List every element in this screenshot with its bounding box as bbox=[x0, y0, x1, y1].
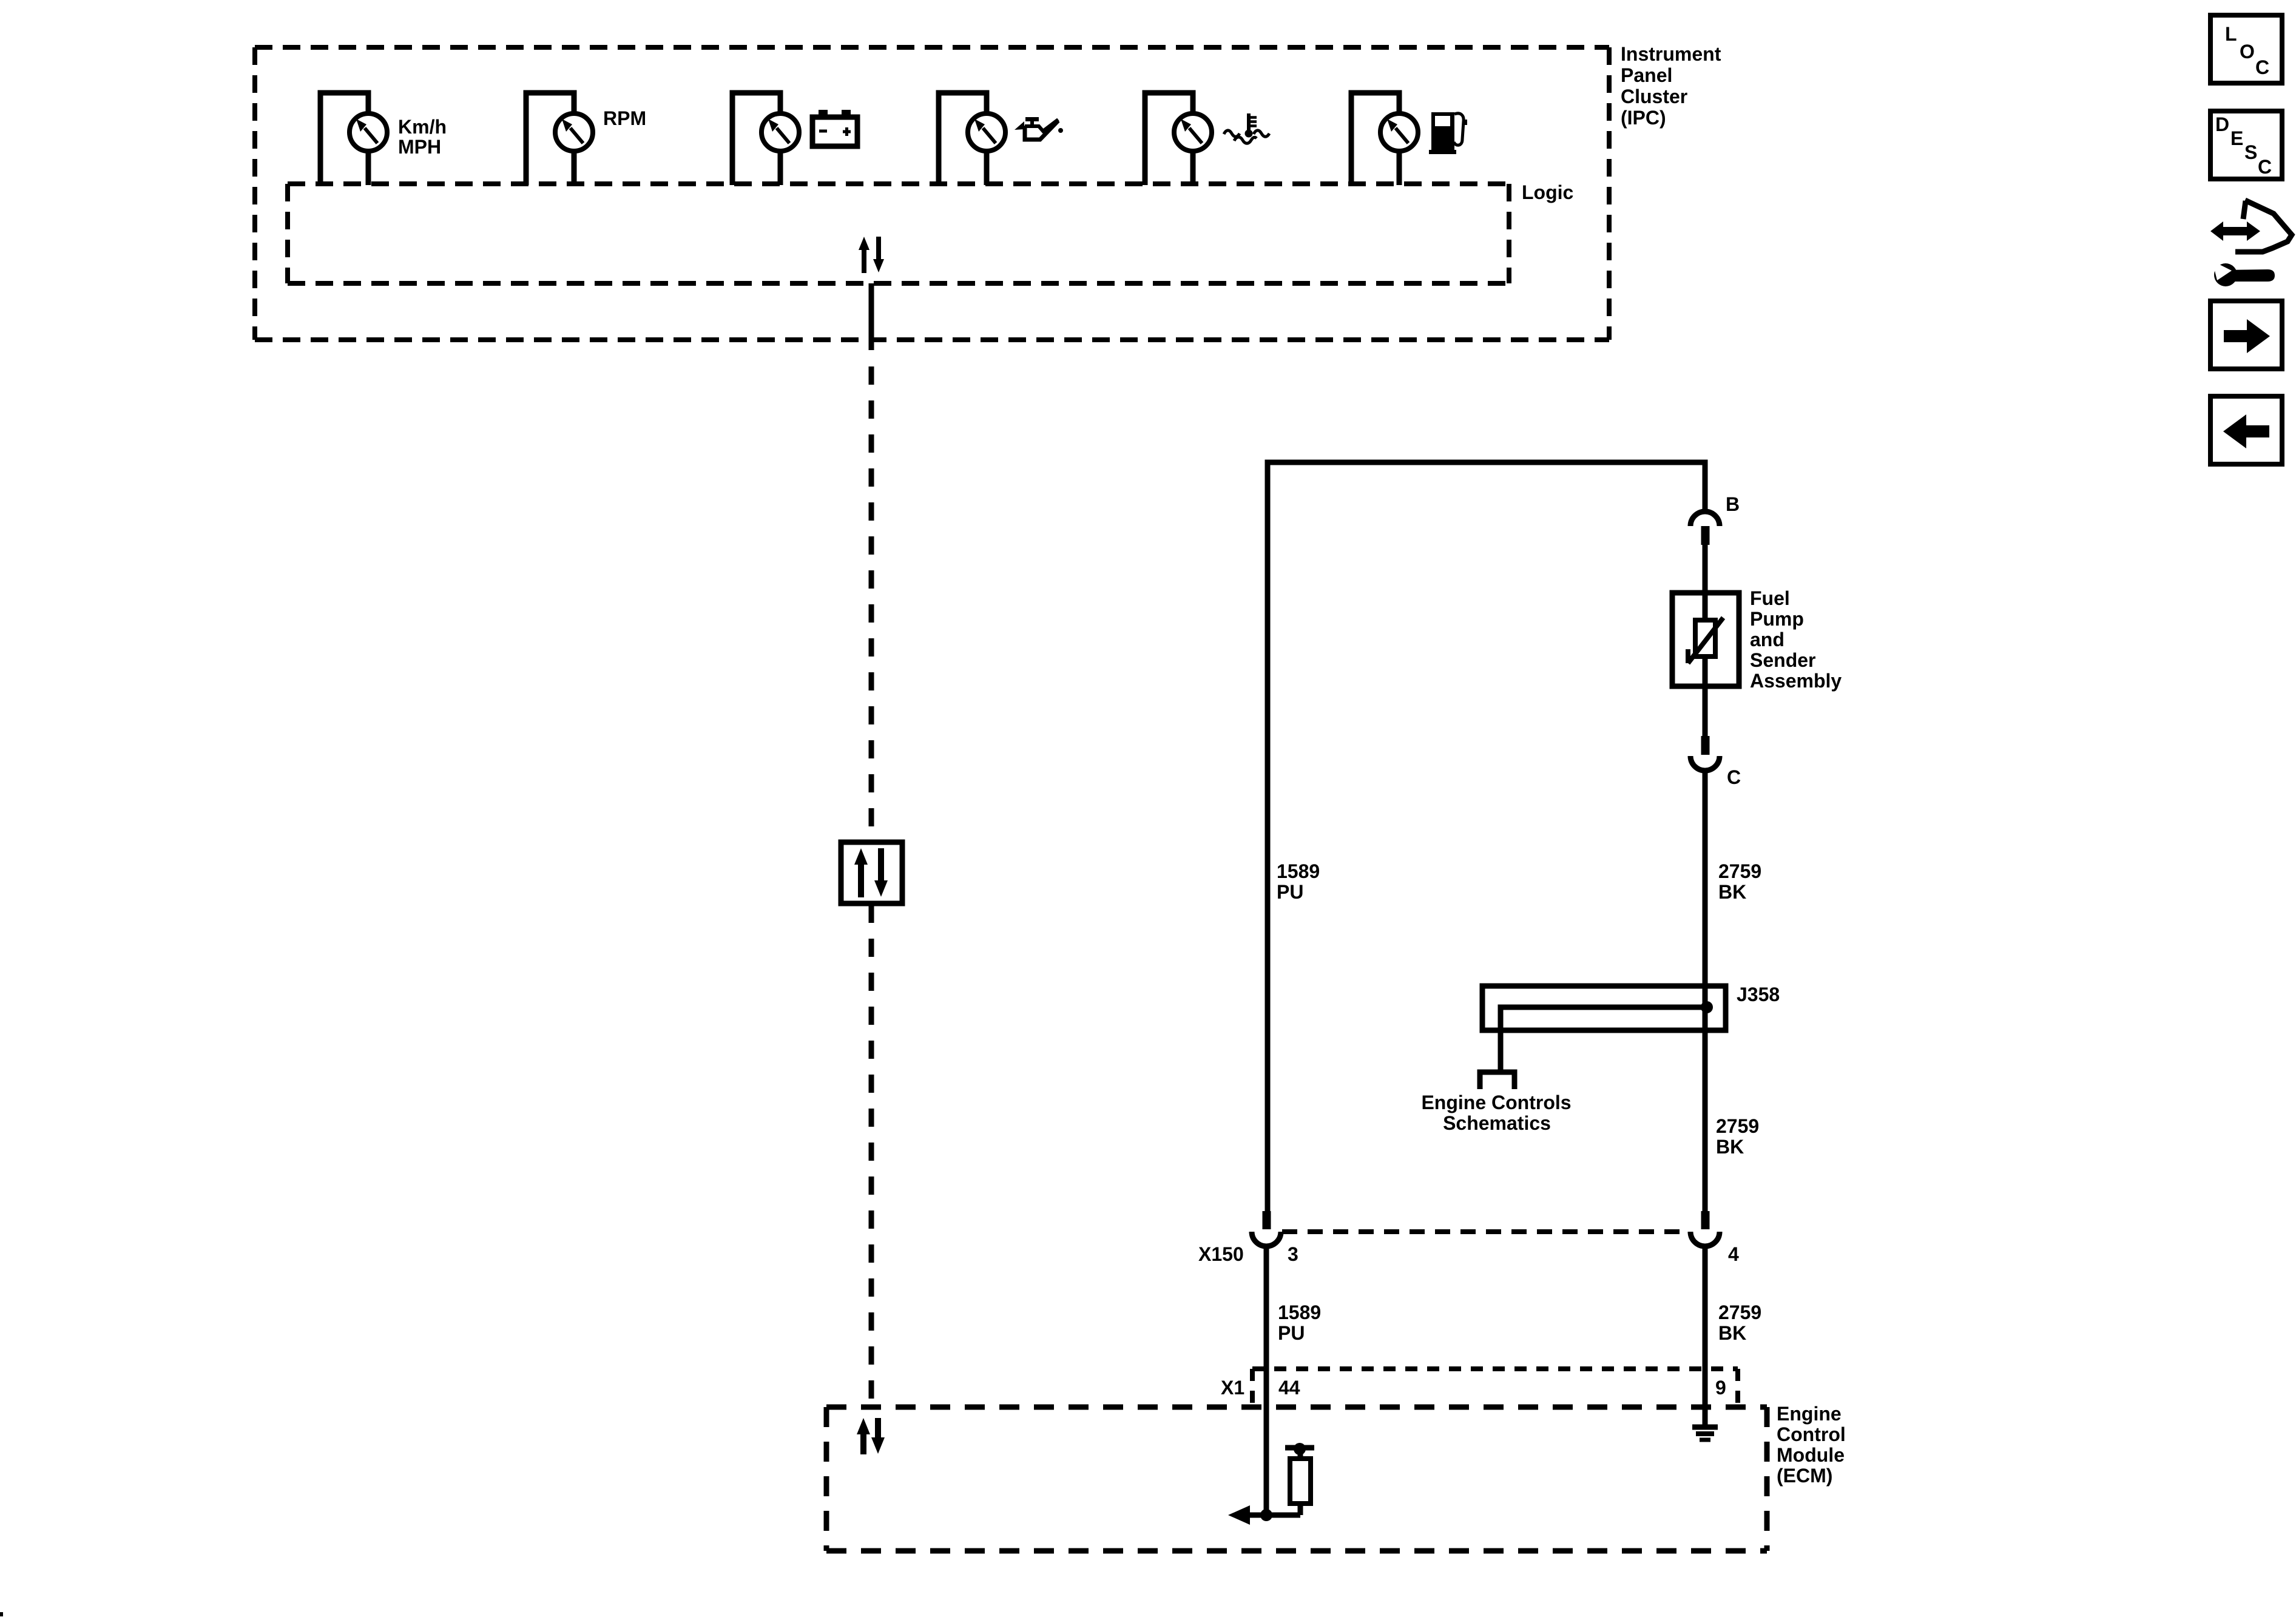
pull-up resistor bbox=[1290, 1459, 1311, 1504]
connector B pin bbox=[1701, 526, 1710, 545]
svg-text:Engine Controls: Engine Controls bbox=[1421, 1092, 1571, 1113]
label 2759 BK upper bbox=[1718, 860, 1761, 903]
svg-text:PU: PU bbox=[1277, 881, 1303, 903]
sender rheostat bbox=[1688, 618, 1723, 663]
svg-text:4: 4 bbox=[1728, 1243, 1739, 1265]
coolant temp gauge bbox=[1145, 93, 1212, 185]
wire X150-4 to ECM ground bbox=[1703, 1246, 1708, 1425]
ground symbol G bbox=[1692, 1427, 1718, 1440]
label 1589 PU lower bbox=[1278, 1301, 1321, 1344]
signal arrow into ECM logic bbox=[1228, 1505, 1300, 1525]
svg-text:Pump: Pump bbox=[1750, 608, 1804, 630]
forward arrow icon box bbox=[2210, 301, 2282, 369]
svg-text:Sender: Sender bbox=[1750, 649, 1815, 671]
fuel pump and sender assembly box bbox=[1672, 593, 1739, 686]
IPC instrument panel cluster dashed box bbox=[255, 47, 1609, 340]
arrows in serial data box bbox=[854, 848, 888, 897]
svg-text:S: S bbox=[2244, 141, 2257, 163]
pull-up resistor wire bbox=[1298, 1504, 1303, 1515]
svg-text:Logic: Logic bbox=[1522, 181, 1573, 203]
svg-text:2759: 2759 bbox=[1718, 860, 1761, 882]
svg-text:2759: 2759 bbox=[1716, 1115, 1759, 1137]
wire through fuel pump box bbox=[1703, 593, 1708, 686]
svg-text:Instrument: Instrument bbox=[1621, 43, 1721, 65]
wire top horizontal ignition feed bbox=[1268, 462, 1705, 1211]
voltage rail dot bbox=[1294, 1443, 1306, 1455]
svg-text:Fuel: Fuel bbox=[1750, 587, 1790, 609]
repair icon wrench bbox=[2212, 261, 2275, 286]
svg-text:Panel: Panel bbox=[1621, 64, 1672, 86]
label 2759 BK middle bbox=[1716, 1115, 1759, 1158]
fuel pump label bbox=[1750, 587, 1842, 692]
svg-text:(IPC): (IPC) bbox=[1621, 107, 1666, 129]
IPC label bbox=[1621, 43, 1721, 129]
svg-text:BK: BK bbox=[1718, 881, 1746, 903]
tachometer gauge bbox=[526, 93, 593, 185]
svg-text:9: 9 bbox=[1715, 1377, 1726, 1399]
svg-text:BK: BK bbox=[1716, 1136, 1744, 1158]
coolant temperature icon bbox=[1224, 113, 1269, 143]
voltage rail T bar bbox=[1285, 1445, 1314, 1451]
connector C pin bbox=[1701, 736, 1710, 755]
dashed serial data wire upper bbox=[869, 366, 874, 842]
speedometer gauge bbox=[320, 93, 387, 185]
svg-text:2759: 2759 bbox=[1718, 1301, 1761, 1323]
svg-text:Schematics: Schematics bbox=[1443, 1112, 1551, 1134]
svg-text:Module: Module bbox=[1777, 1444, 1845, 1466]
junction dot node 44 bbox=[1260, 1509, 1272, 1521]
svg-text:J358: J358 bbox=[1737, 984, 1780, 1005]
svg-text:X1: X1 bbox=[1221, 1377, 1244, 1399]
svg-text:Control: Control bbox=[1777, 1423, 1846, 1445]
dashed serial data wire lower bbox=[869, 905, 874, 1407]
label 2759 BK lower bbox=[1718, 1301, 1761, 1344]
ECM label bbox=[1777, 1403, 1846, 1487]
svg-text:C: C bbox=[1727, 766, 1741, 788]
svg-text:3: 3 bbox=[1288, 1243, 1298, 1265]
repair icon body panel outline bbox=[2235, 200, 2292, 252]
svg-text:PU: PU bbox=[1278, 1322, 1305, 1344]
svg-text:(ECM): (ECM) bbox=[1777, 1465, 1832, 1487]
svg-text:1589: 1589 bbox=[1278, 1301, 1321, 1323]
svg-text:X150: X150 bbox=[1198, 1243, 1244, 1265]
svg-text:Assembly: Assembly bbox=[1750, 670, 1842, 692]
svg-text:1589: 1589 bbox=[1277, 860, 1320, 882]
wire fuel pump to C bbox=[1703, 686, 1708, 736]
splice J358 box bbox=[1482, 986, 1726, 1030]
battery icon bbox=[812, 110, 857, 146]
connector X150 pin 3 bbox=[1252, 1211, 1281, 1246]
DESC icon box bbox=[2210, 111, 2282, 179]
svg-text:RPM: RPM bbox=[603, 107, 646, 129]
connector B half circle bbox=[1690, 511, 1720, 526]
svg-text:Km/h: Km/h bbox=[398, 116, 447, 138]
svg-text:D: D bbox=[2215, 113, 2229, 135]
fuel pump icon bbox=[1429, 112, 1467, 154]
X150 dashed harness line bbox=[1282, 1229, 1689, 1234]
ECM dashed box bbox=[826, 1407, 1767, 1551]
Logic dashed box bbox=[288, 184, 1509, 283]
connector C half circle bbox=[1690, 756, 1720, 771]
svg-text:B: B bbox=[1726, 493, 1740, 515]
svg-text:O: O bbox=[2240, 41, 2255, 62]
repair icon double arrow bbox=[2210, 221, 2260, 241]
wire C to X150 pin 4 bbox=[1703, 771, 1708, 1211]
page corner mark bbox=[0, 1612, 3, 1616]
label 1589 PU upper bbox=[1277, 860, 1320, 903]
svg-text:BK: BK bbox=[1718, 1322, 1746, 1344]
splice junction dot bbox=[1701, 1001, 1713, 1013]
resistor to voltage rail wire bbox=[1298, 1448, 1303, 1459]
svg-text:Cluster: Cluster bbox=[1621, 86, 1687, 107]
svg-text:E: E bbox=[2230, 127, 2243, 149]
fuel level gauge bbox=[1351, 93, 1418, 185]
LOC icon box bbox=[2210, 15, 2282, 83]
wire solid stub from logic to IPC edge bbox=[869, 283, 874, 350]
logic box arrows up-down bbox=[859, 237, 884, 273]
oil can icon bbox=[1015, 117, 1063, 140]
svg-text:MPH: MPH bbox=[398, 136, 441, 158]
svg-text:L: L bbox=[2225, 23, 2237, 45]
svg-text:and: and bbox=[1750, 629, 1784, 650]
svg-text:Engine: Engine bbox=[1777, 1403, 1842, 1425]
splice wire inside J358 bbox=[1501, 1007, 1708, 1070]
speedometer label Km/h MPH bbox=[398, 116, 447, 158]
connector X1 dotted strip bbox=[1252, 1369, 1738, 1407]
svg-text:44: 44 bbox=[1278, 1377, 1300, 1399]
off-page fork symbol bbox=[1480, 1072, 1514, 1089]
voltmeter gauge bbox=[732, 93, 799, 185]
serial data arrow box bbox=[841, 842, 902, 903]
wire X150-3 to X1-44 bbox=[1264, 1246, 1269, 1515]
oil pressure gauge bbox=[939, 93, 1005, 185]
svg-text:C: C bbox=[2255, 56, 2269, 78]
ECM arrows up-down bbox=[857, 1418, 885, 1454]
engine controls schematics label bbox=[1421, 1092, 1571, 1134]
wire B to fuel pump bbox=[1703, 545, 1708, 593]
back arrow icon box bbox=[2210, 396, 2282, 464]
svg-text:C: C bbox=[2258, 156, 2272, 178]
connector X150 pin 4 bbox=[1690, 1211, 1720, 1246]
